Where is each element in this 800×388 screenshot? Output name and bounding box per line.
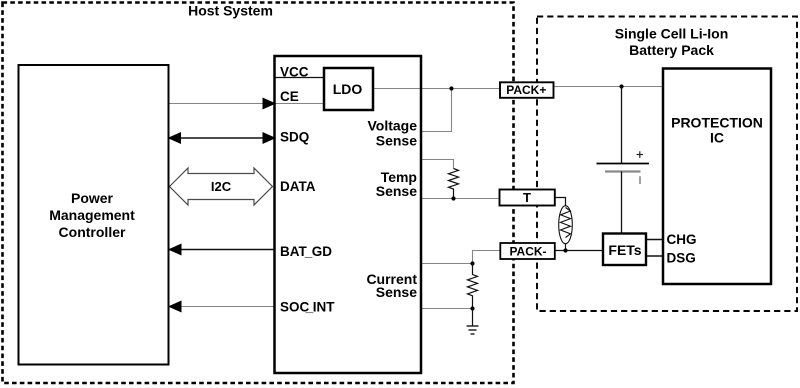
LDO U2 (324, 68, 373, 110)
pin Current Sense (366, 271, 417, 300)
wire thermistor to PACK- node (565, 244, 567, 252)
resistor current sense (468, 264, 478, 309)
svg-text:Power: Power (71, 190, 114, 206)
pin Temp Sense (376, 169, 417, 199)
svg-text:DSG: DSG (667, 251, 696, 266)
FETs Q1 (603, 234, 646, 266)
node current sense bottom junction (470, 306, 474, 310)
svg-text:Management: Management (49, 207, 135, 223)
svg-text:Controller: Controller (59, 224, 126, 240)
wire to ground (472, 309, 474, 327)
wire SOC_INT (arrow into PMC) (168, 301, 275, 313)
svg-text:BAT_GD: BAT_GD (280, 244, 332, 259)
wire VCC (275, 77, 325, 79)
svg-text:Single Cell Li-Ion: Single Cell Li-Ion (615, 26, 729, 42)
svg-text:CE: CE (280, 89, 299, 104)
wire battery to FETs (621, 172, 623, 234)
node voltage sense junction (449, 86, 453, 90)
wire T to thermistor (555, 198, 566, 207)
svg-text:Host System: Host System (188, 3, 273, 19)
svg-text:PACK+: PACK+ (506, 83, 546, 97)
svg-text:FETs: FETs (608, 242, 641, 258)
wire DSG (646, 255, 663, 257)
ground (467, 326, 479, 334)
svg-text:DATA: DATA (280, 179, 316, 194)
svg-text:VCC: VCC (280, 64, 309, 79)
svg-text:Sense: Sense (376, 132, 417, 148)
wire LDO output to PACK+ (373, 88, 499, 90)
node pack+ junction (619, 84, 623, 88)
svg-text:CHG: CHG (667, 232, 697, 247)
label Single Cell Li-Ion Battery Pack (615, 26, 729, 59)
wire PACK+ to PROTECTION IC (554, 86, 663, 88)
svg-text:I2C: I2C (211, 179, 232, 194)
wire temp bias (421, 160, 454, 169)
wire PACK- to FETs (555, 250, 603, 252)
PACK+ terminal (500, 82, 554, 98)
I2C block arrow (170, 168, 273, 205)
svg-text:SOC_INT: SOC_INT (280, 300, 335, 315)
node temp junction (451, 196, 455, 200)
svg-text:T: T (523, 190, 531, 205)
gas gauge IC box (275, 56, 422, 373)
protection IC U3 (663, 69, 771, 285)
wire SDQ (double arrow) (168, 132, 277, 144)
power management controller box (19, 65, 169, 365)
wire voltage sense (421, 89, 452, 132)
node current sense top junction (470, 261, 474, 265)
wire current sense top (421, 263, 473, 265)
svg-text:PACK-: PACK- (509, 245, 546, 259)
svg-text:Battery Pack: Battery Pack (629, 42, 714, 58)
wire current sense bottom (421, 308, 473, 310)
svg-text:Sense: Sense (376, 183, 417, 199)
pin Voltage Sense (367, 118, 417, 149)
battery pack enclosure (dashed) (537, 17, 797, 312)
wire temp sense to T (421, 198, 500, 200)
PACK- terminal (500, 243, 555, 259)
wire BAT_GD (arrow into PMC) (168, 244, 275, 256)
svg-text:SDQ: SDQ (280, 130, 309, 145)
wire pack+ to battery (621, 87, 623, 164)
host system enclosure (dashed) (3, 3, 514, 384)
battery cell BT1 (597, 151, 650, 184)
wire PACK- to current sense node (473, 251, 501, 264)
resistor temp pull-up (449, 169, 459, 199)
svg-text:LDO: LDO (333, 81, 363, 97)
svg-text:Sense: Sense (376, 284, 417, 300)
T terminal (500, 190, 555, 206)
wire CHG (646, 239, 663, 241)
svg-text:IC: IC (710, 129, 724, 145)
wire CE (with arrowhead into gauge) (169, 98, 325, 110)
svg-text:PROTECTION: PROTECTION (671, 114, 763, 130)
node thermistor junction (563, 248, 567, 252)
thermistor RT (ellipse) (559, 206, 573, 244)
svg-text:Voltage: Voltage (367, 118, 417, 134)
